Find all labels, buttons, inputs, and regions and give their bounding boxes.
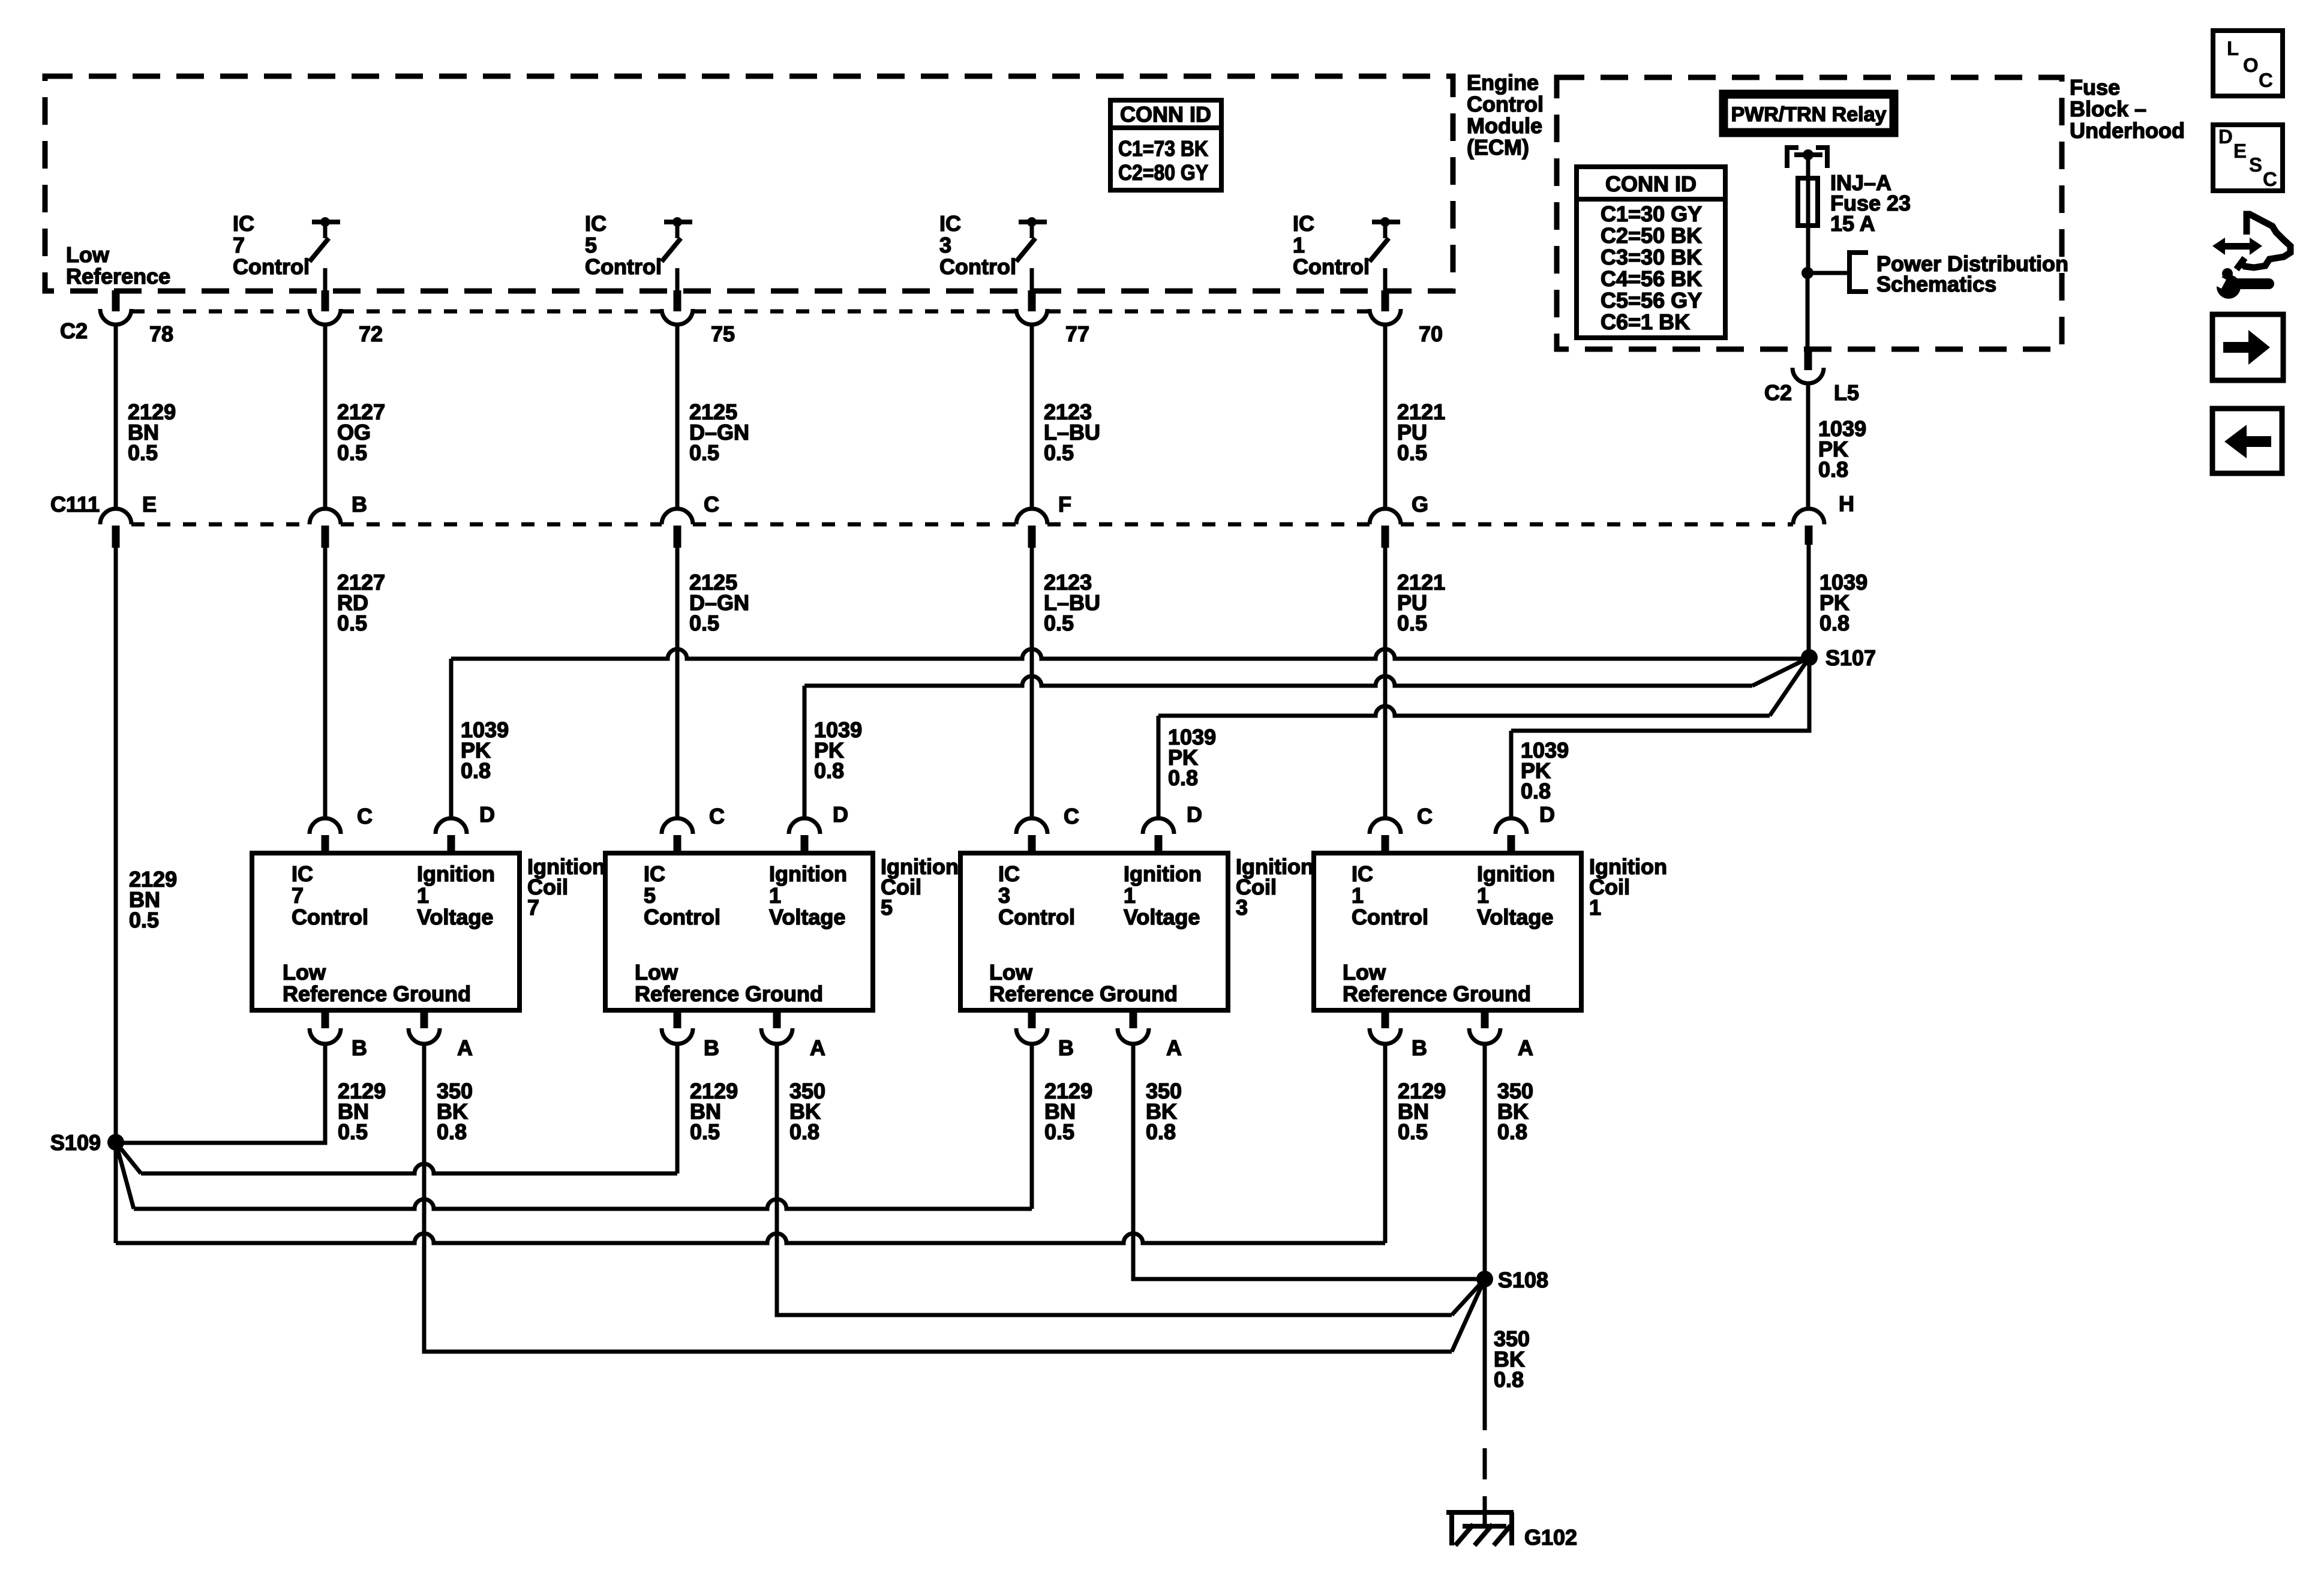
svg-text:D: D — [833, 802, 848, 827]
wire 1039 PK feed: C111-H down to S107 — [1807, 545, 1811, 658]
ECM CONN ID box — [1110, 100, 1221, 190]
svg-text:C1=30 GY: C1=30 GY — [1601, 202, 1702, 226]
svg-text:0.5: 0.5 — [129, 908, 159, 932]
svg-text:S: S — [2249, 154, 2262, 176]
svg-text:5: 5 — [644, 883, 656, 908]
svg-text:C111: C111 — [50, 492, 100, 517]
low reference bus coil 7 B to S109 — [116, 1044, 325, 1143]
svg-text:1: 1 — [1477, 883, 1489, 908]
svg-text:CONN ID: CONN ID — [1605, 172, 1697, 196]
svg-text:Ground: Ground — [745, 981, 823, 1006]
wire 1039 PK drop to ignition coil 3 pin D — [1157, 716, 1161, 818]
svg-text:Low: Low — [66, 242, 110, 267]
ignition coil 7 pin C terminal — [310, 818, 341, 834]
svg-text:Voltage: Voltage — [417, 905, 493, 929]
svg-text:C: C — [709, 804, 725, 828]
svg-text:1: 1 — [1352, 883, 1364, 908]
svg-text:C2=80 GY: C2=80 GY — [1118, 160, 1208, 185]
wire 1039 PK drop to ignition coil 7 pin D — [449, 659, 454, 818]
connector C111 terminal G — [1370, 509, 1401, 524]
wire segment circuit 2121 from C2 pin 70 down to C111 — [1383, 325, 1388, 509]
low reference bus coil 3 B to S109 (diagonal) — [116, 1142, 134, 1209]
ignition coil 1 pin B terminal — [1382, 1010, 1389, 1028]
svg-text:C2=50 BK: C2=50 BK — [1601, 223, 1702, 248]
ignition coil 1 pin C terminal — [1370, 818, 1401, 834]
wire segment circuit 2127 from C111 down to ignition coil 7 pin C — [323, 548, 328, 818]
svg-text:C: C — [357, 804, 373, 828]
wire segment circuit 2121 from C111 down to ignition coil 1 pin C — [1383, 548, 1388, 818]
svg-text:72: 72 — [359, 322, 383, 346]
svg-text:3: 3 — [939, 233, 951, 257]
svg-text:7: 7 — [292, 883, 304, 908]
ignition coil 3 pin A terminal — [1130, 1010, 1137, 1028]
PWR/TRN Relay box — [1724, 94, 1894, 133]
ignition feed bus to coil 7 (hops over coil5/coil3/coil1 control wires) — [451, 649, 1809, 659]
svg-text:C2: C2 — [1764, 380, 1792, 405]
svg-text:0.5: 0.5 — [128, 440, 158, 465]
svg-text:D: D — [1187, 802, 1202, 827]
wire segment circuit 2127 from C2 pin 72 down to C111 — [323, 325, 328, 509]
svg-text:0.8: 0.8 — [1497, 1119, 1527, 1144]
ignition coil 1 pin D terminal — [1496, 818, 1527, 834]
ECM module dashed box — [45, 76, 1453, 291]
low reference bus coil 1 B to S109 (down and right) — [114, 1142, 118, 1243]
svg-text:C: C — [2259, 69, 2273, 91]
svg-text:Ignition: Ignition — [1124, 861, 1202, 886]
wire 1039 PK drop to ignition coil 5 pin D — [803, 686, 807, 818]
svg-text:0.8: 0.8 — [1168, 766, 1198, 790]
ignition feed bus to coil 5 (diagonal from S107) — [804, 676, 1752, 686]
svg-text:B: B — [1058, 1035, 1074, 1060]
svg-text:Engine: Engine — [1467, 70, 1539, 95]
svg-text:Reference: Reference — [1343, 981, 1447, 1006]
svg-text:0.5: 0.5 — [690, 1119, 720, 1144]
svg-text:0.5: 0.5 — [338, 1119, 368, 1144]
ignition coil 5 box — [605, 853, 873, 1010]
ignition coil 7 pin B terminal — [322, 1010, 329, 1028]
icon forward arrow box — [2212, 314, 2283, 380]
ignition coil 5 pin A terminal — [773, 1010, 781, 1028]
svg-text:Control: Control — [585, 254, 662, 279]
svg-text:A: A — [1166, 1035, 1182, 1060]
dashed continuation wire to G102 — [1483, 1448, 1487, 1512]
ignition coil 7 pin D terminal — [436, 818, 467, 834]
svg-text:(ECM): (ECM) — [1467, 135, 1529, 160]
svg-text:Fuse: Fuse — [2070, 75, 2120, 100]
svg-text:S107: S107 — [1825, 646, 1876, 670]
svg-text:Reference: Reference — [989, 981, 1094, 1006]
svg-text:0.8: 0.8 — [437, 1119, 467, 1144]
wire 1039 PK drop to ignition coil 1 pin D — [1509, 731, 1514, 818]
svg-text:Reference: Reference — [66, 264, 170, 289]
svg-text:Ignition: Ignition — [417, 861, 495, 886]
wire from fuse to junction — [1806, 226, 1810, 273]
fuse INJ-A Fuse 23 15 A — [1798, 178, 1818, 226]
svg-text:Control: Control — [1352, 905, 1428, 929]
svg-text:B: B — [1412, 1035, 1427, 1060]
svg-text:3: 3 — [998, 883, 1010, 908]
svg-text:0.8: 0.8 — [1819, 611, 1849, 635]
svg-text:78: 78 — [149, 322, 173, 346]
svg-text:0.5: 0.5 — [337, 440, 367, 465]
svg-text:70: 70 — [1419, 322, 1443, 346]
svg-text:0.8: 0.8 — [1818, 457, 1848, 482]
icon DESC box — [2213, 125, 2283, 191]
svg-text:Control: Control — [292, 905, 368, 929]
svg-text:Control: Control — [233, 254, 310, 279]
svg-text:1: 1 — [1124, 883, 1136, 908]
svg-text:B: B — [352, 1035, 367, 1060]
ignition coil 3 pin D terminal — [1143, 818, 1174, 834]
svg-text:Ground: Ground — [1453, 981, 1531, 1006]
relay output terminal symbol — [1787, 148, 1798, 168]
svg-text:CONN ID: CONN ID — [1120, 102, 1211, 127]
ignition coil 7 box — [252, 853, 520, 1010]
svg-text:1: 1 — [769, 883, 781, 908]
svg-text:Control: Control — [1467, 92, 1544, 116]
ignition coil 7 pin A terminal — [421, 1010, 428, 1028]
svg-text:Schematics: Schematics — [1876, 272, 1996, 296]
svg-text:Ignition: Ignition — [1477, 861, 1555, 886]
svg-text:L: L — [2227, 37, 2239, 59]
svg-text:0.8: 0.8 — [789, 1119, 819, 1144]
wire segment circuit 2123 from C2 pin 77 down to C111 — [1030, 325, 1034, 509]
svg-text:IC: IC — [292, 861, 313, 886]
connector C2 terminal pin 72 — [322, 290, 329, 311]
ground wire coil 5 A to S108 (diagonal) — [777, 1044, 1452, 1315]
fuse block CONN ID box — [1577, 167, 1725, 338]
Fuse Block dashed box — [1557, 77, 2062, 349]
connector row C2 dotted line — [131, 310, 1370, 314]
svg-text:H: H — [1839, 491, 1854, 516]
connector C111 terminal F — [1016, 509, 1047, 524]
svg-text:C: C — [1417, 804, 1433, 828]
svg-text:C: C — [704, 492, 719, 517]
svg-text:0.5: 0.5 — [1397, 440, 1427, 465]
svg-text:Low: Low — [635, 960, 678, 984]
connector C111 terminal C — [662, 509, 693, 524]
svg-text:G: G — [1412, 492, 1428, 517]
ignition coil 3 box — [960, 853, 1228, 1010]
svg-text:77: 77 — [1065, 322, 1089, 346]
connector row C111 dotted line — [131, 523, 1793, 527]
svg-text:5: 5 — [585, 233, 597, 257]
wire segment circuit 1039 PK from fuse block to C111 — [1806, 383, 1810, 509]
connector C2 terminal pin 77 — [1028, 290, 1036, 311]
ignition coil 3 pin C terminal — [1016, 818, 1047, 834]
svg-text:L5: L5 — [1834, 380, 1859, 405]
ground wire coil 1 A down to S108 — [1483, 1044, 1487, 1279]
svg-text:Low: Low — [283, 960, 326, 984]
svg-text:B: B — [704, 1035, 719, 1060]
svg-text:C6=1 BK: C6=1 BK — [1601, 310, 1690, 334]
svg-text:C: C — [2263, 168, 2277, 190]
svg-text:0.8: 0.8 — [461, 758, 491, 783]
svg-text:0.5: 0.5 — [337, 611, 367, 635]
svg-text:D: D — [1539, 802, 1555, 827]
svg-text:O: O — [2243, 54, 2259, 76]
svg-text:Voltage: Voltage — [1124, 905, 1200, 929]
ground wire coil 3 A to S108 — [1133, 1044, 1485, 1279]
svg-text:Control: Control — [998, 905, 1075, 929]
svg-text:0.5: 0.5 — [1397, 611, 1427, 635]
svg-text:0.5: 0.5 — [1398, 1119, 1428, 1144]
svg-text:0.5: 0.5 — [1044, 440, 1074, 465]
svg-text:1: 1 — [1293, 233, 1305, 257]
svg-text:15 A: 15 A — [1830, 211, 1875, 236]
wire segment circuit 2123 from C111 down to ignition coil 3 pin C — [1030, 548, 1034, 818]
svg-text:Module: Module — [1467, 113, 1542, 138]
svg-text:G102: G102 — [1524, 1525, 1577, 1550]
splice S109 — [107, 1134, 124, 1151]
svg-text:Control: Control — [644, 905, 720, 929]
connector C111 terminal E — [100, 509, 131, 524]
svg-text:IC: IC — [233, 211, 254, 236]
svg-text:A: A — [1518, 1035, 1533, 1060]
wire segment circuit 2125 from C111 down to ignition coil 5 pin C — [675, 548, 680, 818]
svg-text:5: 5 — [881, 895, 893, 920]
svg-text:E: E — [2233, 140, 2247, 162]
svg-text:S108: S108 — [1498, 1268, 1548, 1292]
wire from relay terminal to fuse INJ-A — [1806, 155, 1810, 178]
svg-text:A: A — [810, 1035, 825, 1060]
svg-text:3: 3 — [1236, 895, 1248, 920]
svg-text:1: 1 — [417, 883, 429, 908]
svg-text:Block –: Block – — [2070, 97, 2146, 121]
icon back arrow box — [2212, 409, 2282, 473]
fuse block connector C2 terminal L5 — [1804, 349, 1812, 370]
svg-text:Low: Low — [989, 960, 1033, 984]
svg-text:C4=56 BK: C4=56 BK — [1601, 266, 1702, 291]
svg-text:E: E — [142, 492, 157, 517]
ignition feed bus to coil 3 (diagonal from S107) — [1158, 706, 1770, 716]
svg-text:C2: C2 — [60, 319, 88, 343]
connector C2 terminal pin 70 — [1382, 290, 1389, 311]
ignition coil 5 pin B terminal — [674, 1010, 681, 1028]
svg-text:Voltage: Voltage — [1477, 905, 1553, 929]
wire from junction to fuse block C2 connector — [1806, 273, 1810, 349]
wire segment circuit 2129 from C2 pin 78 down to C111 — [114, 325, 118, 509]
svg-text:IC: IC — [644, 861, 665, 886]
icon LOC box — [2213, 31, 2283, 96]
svg-text:1: 1 — [1589, 895, 1601, 920]
svg-text:C1=73 BK: C1=73 BK — [1118, 136, 1208, 161]
svg-text:Ground: Ground — [393, 981, 471, 1006]
svg-text:D: D — [479, 802, 495, 827]
svg-text:IC: IC — [939, 211, 961, 236]
ignition coil 1 pin A terminal — [1481, 1010, 1489, 1028]
svg-text:B: B — [352, 492, 367, 517]
connector C2 terminal pin 78 — [112, 290, 120, 311]
svg-text:C5=56 GY: C5=56 GY — [1601, 288, 1702, 313]
connector C111 terminal H — [1793, 509, 1824, 524]
svg-text:Reference: Reference — [283, 981, 387, 1006]
splice S108 — [1476, 1271, 1493, 1287]
wire segment circuit 2125 from C2 pin 75 down to C111 — [675, 325, 680, 509]
svg-text:75: 75 — [711, 322, 735, 346]
svg-text:IC: IC — [585, 211, 606, 236]
svg-text:C3=30 BK: C3=30 BK — [1601, 245, 1702, 269]
svg-text:Control: Control — [1293, 254, 1370, 279]
wire segment circuit 2129 BN from C111-E down to splice S109 — [114, 548, 118, 1142]
icon vehicle navigation arrow with wrench — [2212, 238, 2262, 255]
svg-text:Control: Control — [939, 254, 1016, 279]
svg-text:7: 7 — [527, 895, 539, 920]
svg-text:Ground: Ground — [1100, 981, 1178, 1006]
svg-text:S109: S109 — [50, 1130, 101, 1155]
svg-text:0.5: 0.5 — [689, 440, 719, 465]
svg-text:Ignition: Ignition — [769, 861, 847, 886]
svg-text:0.8: 0.8 — [1521, 779, 1551, 803]
svg-text:Low: Low — [1343, 960, 1386, 984]
svg-text:7: 7 — [233, 233, 245, 257]
svg-text:Voltage: Voltage — [769, 905, 845, 929]
svg-text:F: F — [1058, 492, 1071, 517]
svg-text:PWR/TRN Relay: PWR/TRN Relay — [1731, 103, 1887, 126]
svg-text:0.8: 0.8 — [1494, 1367, 1524, 1392]
splice S107 — [1801, 649, 1818, 666]
svg-text:Reference: Reference — [635, 981, 739, 1006]
svg-text:A: A — [457, 1035, 473, 1060]
connector C2 terminal pin 75 — [674, 290, 681, 311]
svg-text:Underhood: Underhood — [2070, 118, 2185, 143]
connector C111 terminal B — [310, 509, 341, 524]
svg-text:0.8: 0.8 — [1146, 1119, 1176, 1144]
ground G102 symbol — [1446, 1510, 1514, 1515]
svg-text:0.5: 0.5 — [689, 611, 719, 635]
ignition coil 5 pin C terminal — [662, 818, 693, 834]
wire segment circuit 350 BK from S108 toward G102 — [1483, 1279, 1487, 1430]
junction to Power Distribution Schematics — [1801, 267, 1813, 279]
ignition coil 3 pin B terminal — [1028, 1010, 1036, 1028]
ignition coil 5 pin D terminal — [789, 818, 820, 834]
svg-text:0.5: 0.5 — [1044, 1119, 1074, 1144]
ignition coil 1 box — [1314, 853, 1581, 1010]
ground wire coil 7 A to S108 (diagonal) — [424, 1044, 1452, 1352]
low reference bus coil 5 B to S109 (diagonal) — [116, 1142, 141, 1173]
svg-text:C: C — [1064, 804, 1079, 828]
svg-text:IC: IC — [998, 861, 1020, 886]
svg-text:0.8: 0.8 — [814, 758, 844, 783]
svg-text:IC: IC — [1352, 861, 1373, 886]
svg-text:D: D — [2218, 125, 2233, 148]
ignition feed bus to coil 1 (from below S107) — [1511, 658, 1809, 731]
svg-text:0.5: 0.5 — [1044, 611, 1074, 635]
svg-text:IC: IC — [1293, 211, 1314, 236]
